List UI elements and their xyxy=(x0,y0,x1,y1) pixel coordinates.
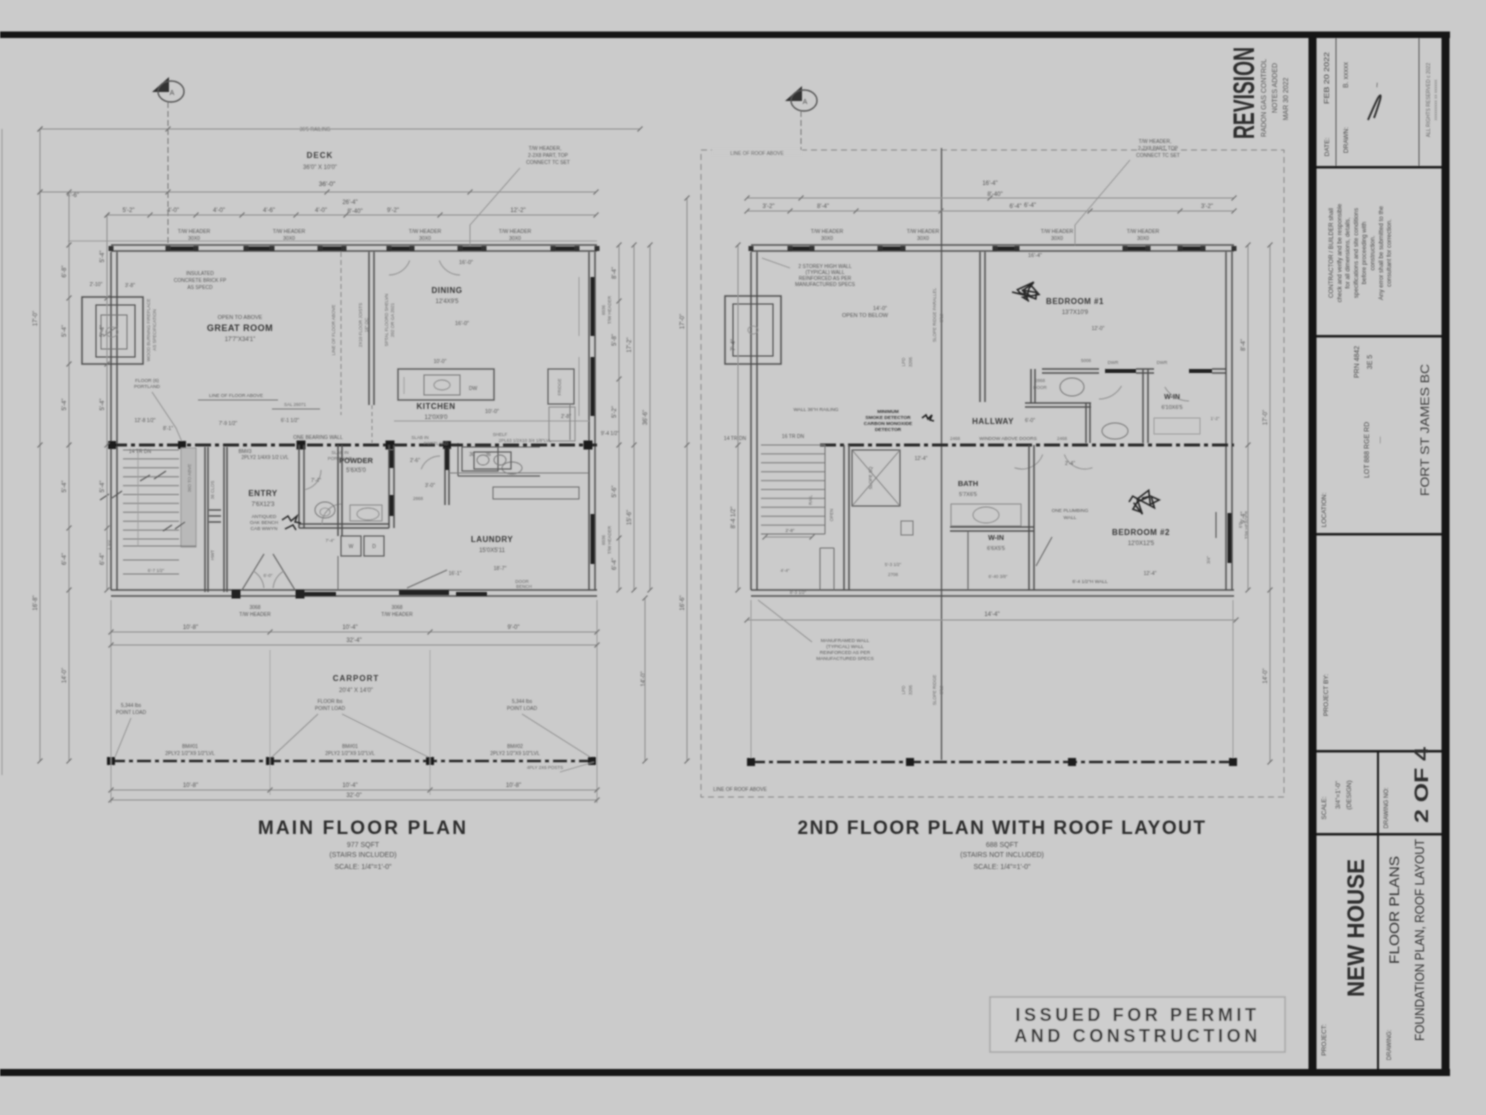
main floor: line of floor above (dashed) xyxy=(340,252,342,415)
svg-text:6'10X6'5: 6'10X6'5 xyxy=(1161,405,1182,411)
svg-text:3'-8": 3'-8" xyxy=(125,283,135,289)
2nd floor: ridge line xyxy=(941,148,943,760)
svg-text:2'-8": 2'-8" xyxy=(561,414,571,420)
main floor: dimension chains below building xyxy=(111,631,597,633)
svg-text:~: ~ xyxy=(1372,82,1382,87)
main floor: laundry counter and washer-dryer pair xyxy=(474,452,511,469)
svg-text:(TYPICAL) WALL: (TYPICAL) WALL xyxy=(826,644,864,650)
svg-text:SMOKE DETECTOR: SMOKE DETECTOR xyxy=(865,415,911,421)
svg-text:BEDROOM #1: BEDROOM #1 xyxy=(1046,297,1104,306)
svg-text:6036: 6036 xyxy=(601,534,606,545)
svg-text:26'-4": 26'-4" xyxy=(342,200,357,206)
svg-text:FEB 20 2022: FEB 20 2022 xyxy=(1324,52,1331,104)
svg-text:OPEN: OPEN xyxy=(829,509,834,522)
svg-text:8'-1": 8'-1" xyxy=(163,426,173,432)
svg-text:6'-7 1/2": 6'-7 1/2" xyxy=(148,568,165,573)
svg-text:2-2X8 PART, TOP: 2-2X8 PART, TOP xyxy=(528,153,569,159)
svg-text:6'-0": 6'-0" xyxy=(1025,418,1035,424)
svg-text:3/4": 3/4" xyxy=(1206,556,1211,564)
svg-text:POWDER: POWDER xyxy=(339,456,373,465)
svg-text:FLOOR lbs: FLOOR lbs xyxy=(317,699,343,705)
svg-text:T/W HEADER: T/W HEADER xyxy=(607,295,612,324)
left page edge line xyxy=(1,129,3,775)
svg-text:16'-0": 16'-0" xyxy=(455,321,469,327)
main floor: dining patio door arc xyxy=(389,261,410,276)
svg-text:7'-4": 7'-4" xyxy=(326,538,335,543)
svg-text:T/W HEADER: T/W HEADER xyxy=(607,525,612,554)
svg-text:T/W HEADER: T/W HEADER xyxy=(381,612,413,618)
svg-text:8/12: 8/12 xyxy=(939,685,944,694)
main floor: carport beam line xyxy=(111,760,597,763)
svg-text:DRAWN:: DRAWN: xyxy=(1343,127,1350,153)
svg-text:14'-4": 14'-4" xyxy=(984,612,999,618)
svg-text:LINE OF ROOF ABOVE: LINE OF ROOF ABOVE xyxy=(730,151,784,157)
svg-text:PORTLAND: PORTLAND xyxy=(424,441,449,446)
svg-text:6036: 6036 xyxy=(601,304,606,315)
svg-text:BM#01: BM#01 xyxy=(342,744,358,750)
svg-text:RADON GAS CONTROL: RADON GAS CONTROL xyxy=(1261,59,1268,137)
svg-text:6'-4": 6'-4" xyxy=(1010,204,1022,210)
2nd floor: wall bath/bedroom2 separator xyxy=(1028,445,1030,590)
svg-text:6'-8": 6'-8" xyxy=(62,266,68,278)
svg-text:HALLWAY: HALLWAY xyxy=(972,417,1014,426)
svg-text:8'-4 1/2": 8'-4 1/2" xyxy=(731,507,737,529)
svg-text:14'-0": 14'-0" xyxy=(641,671,647,686)
2nd floor: roof extension lines xyxy=(750,600,752,762)
main floor: kitchen island xyxy=(398,369,494,400)
svg-text:2868: 2868 xyxy=(1035,378,1046,383)
svg-text:3'-0": 3'-0" xyxy=(425,483,435,489)
svg-text:FORT ST JAMES BC: FORT ST JAMES BC xyxy=(1420,364,1432,496)
svg-text:2PL63 1/2X10 3/4 1/8"LVL: 2PL63 1/2X10 3/4 1/8"LVL xyxy=(499,438,552,443)
svg-text:15'0X5'11: 15'0X5'11 xyxy=(479,548,506,554)
svg-text:LPD: LPD xyxy=(901,357,906,367)
svg-text:BM#02: BM#02 xyxy=(507,744,523,750)
svg-text:8'-3 1/2": 8'-3 1/2" xyxy=(790,590,807,595)
svg-text:SLOPE RIDGE PARALLEL: SLOPE RIDGE PARALLEL xyxy=(932,287,937,342)
svg-text:DOOR: DOOR xyxy=(1033,385,1047,390)
svg-text:16'-4": 16'-4" xyxy=(1028,253,1042,259)
svg-text:1'-2": 1'-2" xyxy=(1211,416,1220,421)
main floor: fridge xyxy=(548,369,574,404)
svg-text:3/4"=1'-0": 3/4"=1'-0" xyxy=(1335,780,1342,809)
svg-text:15'-6": 15'-6" xyxy=(627,510,633,525)
svg-text:AS SPECD: AS SPECD xyxy=(187,285,213,291)
svg-text:2'-8": 2'-8" xyxy=(786,528,795,533)
2nd floor: mid wall xyxy=(820,444,1234,447)
svg-text:INSULATED: INSULATED xyxy=(186,271,214,277)
svg-text:12'-2": 12'-2" xyxy=(510,208,525,214)
svg-text:ANTIQUED: ANTIQUED xyxy=(252,514,277,520)
svg-text:NEW HOUSE: NEW HOUSE xyxy=(1343,859,1370,997)
svg-text:GREAT ROOM: GREAT ROOM xyxy=(207,323,273,333)
svg-text:ONE PLUMBING: ONE PLUMBING xyxy=(1052,508,1089,514)
svg-text:9'-4 1/2": 9'-4 1/2" xyxy=(601,431,620,437)
svg-text:CARBON MONOXIDE: CARBON MONOXIDE xyxy=(864,421,913,427)
svg-text:8'-4": 8'-4" xyxy=(1241,339,1247,351)
svg-text:4'-4": 4'-4" xyxy=(781,568,790,573)
svg-text:2868: 2868 xyxy=(413,496,424,501)
main floor: right wall lower window header xyxy=(591,514,595,564)
svg-text:BEDROOM #2: BEDROOM #2 xyxy=(1112,528,1170,537)
svg-text:CONNECT TC SET: CONNECT TC SET xyxy=(1136,153,1180,159)
sheet top border xyxy=(0,32,1450,39)
sheet right border xyxy=(1442,32,1450,1076)
svg-text:3068: 3068 xyxy=(249,605,260,611)
svg-text:5,344 lbs: 5,344 lbs xyxy=(121,703,142,709)
svg-text:NOTES ADDED: NOTES ADDED xyxy=(1272,63,1279,113)
svg-text:17'-0": 17'-0" xyxy=(1263,410,1269,425)
svg-text:5'7X6'5: 5'7X6'5 xyxy=(959,492,977,498)
svg-text:6'-1 1/2": 6'-1 1/2" xyxy=(281,418,300,424)
svg-text:SHELF: SHELF xyxy=(493,432,508,437)
svg-text:(DESIGN): (DESIGN) xyxy=(1346,780,1353,809)
svg-text:16 TR DN: 16 TR DN xyxy=(782,434,805,440)
svg-text:LOT 888 RGE RD: LOT 888 RGE RD xyxy=(1364,422,1371,478)
svg-text:30X0: 30X0 xyxy=(188,236,200,242)
svg-text:30X0: 30X0 xyxy=(283,236,295,242)
svg-text:WALL: WALL xyxy=(1064,515,1077,521)
svg-text:5'-2": 5'-2" xyxy=(123,208,135,214)
svg-text:2'-4": 2'-4" xyxy=(1065,461,1075,467)
2nd floor: w-in lower xyxy=(950,526,1034,528)
svg-text:5'6X5'0: 5'6X5'0 xyxy=(346,468,366,474)
main floor: washer dryer xyxy=(341,536,361,556)
svg-text:12'-0": 12'-0" xyxy=(1092,326,1105,332)
svg-text:FLOOR PLANS: FLOOR PLANS xyxy=(1386,856,1402,964)
svg-text:PORTLAND: PORTLAND xyxy=(134,384,161,390)
svg-text:2ND FLOOR PLAN WITH ROOF L: 2ND FLOOR PLAN WITH ROOF LAYOUT xyxy=(798,818,1207,839)
svg-text:2 OF 4: 2 OF 4 xyxy=(1412,746,1433,823)
svg-text:14'-0": 14'-0" xyxy=(873,306,887,312)
svg-text:3205: 3205 xyxy=(908,684,913,695)
svg-text:DETECTOR: DETECTOR xyxy=(875,427,902,433)
svg-text:specifications and site condit: specifications and site conditions xyxy=(1353,208,1360,298)
2nd floor: left dimension chains xyxy=(737,245,739,590)
svg-text:7'-9 1/2": 7'-9 1/2" xyxy=(219,421,238,427)
svg-text:T/W HEADER: T/W HEADER xyxy=(178,229,211,235)
svg-text:36'5 RAILING: 36'5 RAILING xyxy=(300,127,331,133)
svg-text:2468: 2468 xyxy=(950,436,961,441)
svg-text:6'-4": 6'-4" xyxy=(62,553,68,565)
svg-text:OAK BENCH: OAK BENCH xyxy=(250,520,279,526)
svg-text:DRAWING NO:: DRAWING NO: xyxy=(1384,787,1390,828)
svg-text:W-IN: W-IN xyxy=(1164,394,1180,401)
svg-text:3'-2": 3'-2" xyxy=(763,204,775,210)
svg-text:SLAB IN: SLAB IN xyxy=(331,450,348,455)
svg-text:AND CONSTRUCTION: AND CONSTRUCTION xyxy=(1014,1026,1261,1046)
svg-text:16'-6": 16'-6" xyxy=(680,595,686,610)
svg-text:A: A xyxy=(803,99,808,106)
svg-text:9'-0": 9'-0" xyxy=(508,625,520,631)
svg-text:AS SPECIFICATION: AS SPECIFICATION xyxy=(152,309,157,350)
svg-text:T/W HEADER: T/W HEADER xyxy=(1127,229,1160,235)
svg-text:A: A xyxy=(170,90,175,97)
svg-text:(STAIRS INCLUDED): (STAIRS INCLUDED) xyxy=(329,852,396,859)
main floor: closet walls near entry xyxy=(204,447,206,592)
svg-text:17'-0": 17'-0" xyxy=(680,314,686,329)
svg-text:3'-2": 3'-2" xyxy=(1201,204,1213,210)
2nd floor: plant scribble bedroom1 xyxy=(1012,282,1039,302)
svg-text:T/W HEADER,: T/W HEADER, xyxy=(529,146,562,152)
2nd floor: carport beam line xyxy=(751,761,1233,764)
svg-text:36'-6": 36'-6" xyxy=(643,410,649,425)
svg-text:T/W HEADER: T/W HEADER xyxy=(409,229,442,235)
svg-text:LINE OF ROOF ABOVE: LINE OF ROOF ABOVE xyxy=(713,787,767,793)
svg-text:SCALE: 1/4"=1'-0": SCALE: 1/4"=1'-0" xyxy=(973,864,1031,871)
main floor: kitchen-laundry wall xyxy=(444,448,446,505)
svg-text:2X10 FLOOR JOISTS: 2X10 FLOOR JOISTS xyxy=(358,303,363,347)
svg-text:MANUFRAMED WALL: MANUFRAMED WALL xyxy=(821,638,870,644)
svg-text:2PLY2 1/2"X9 1/2"LVL: 2PLY2 1/2"X9 1/2"LVL xyxy=(165,751,215,757)
main floor: left dimension chains xyxy=(39,129,41,761)
2nd floor: right dimension chains xyxy=(1247,245,1249,590)
svg-text:SCALE: 1/4"=1'-0": SCALE: 1/4"=1'-0" xyxy=(334,864,392,871)
svg-text:LAUNDRY: LAUNDRY xyxy=(471,535,513,544)
svg-text:17'-2": 17'-2" xyxy=(627,337,633,352)
svg-text:17'-0": 17'-0" xyxy=(33,311,39,326)
svg-text:ENTRY: ENTRY xyxy=(248,489,277,498)
svg-text:12'0X12'5: 12'0X12'5 xyxy=(1128,541,1155,547)
svg-text:4'-6": 4'-6" xyxy=(263,208,275,214)
svg-text:PRN 4842: PRN 4842 xyxy=(1354,346,1361,378)
svg-text:FLOOR (6): FLOOR (6) xyxy=(135,378,159,384)
svg-text:7'-4": 7'-4" xyxy=(731,339,737,351)
svg-text:6'-4 1/2"H WALL: 6'-4 1/2"H WALL xyxy=(1072,579,1108,585)
main floor: entry bench scribble xyxy=(282,516,301,530)
svg-text:10'-4": 10'-4" xyxy=(342,783,357,789)
main floor: mid bearing wall (dash-dot) xyxy=(111,444,597,447)
svg-text:DATE:: DATE: xyxy=(1324,137,1331,156)
svg-text:32'-0": 32'-0" xyxy=(346,793,361,799)
svg-text:T/W HEADER: T/W HEADER xyxy=(239,612,271,618)
2nd floor: fireplace chase xyxy=(725,296,781,364)
main floor: top dimension chains xyxy=(40,128,640,130)
svg-text:30X0: 30X0 xyxy=(1051,236,1063,242)
svg-text:10'-8": 10'-8" xyxy=(183,783,198,789)
svg-text:T/W HEADER: T/W HEADER xyxy=(811,229,844,235)
main floor: headers on bottom wall (doors) xyxy=(296,592,336,596)
main floor: bottom dimension chains xyxy=(111,789,597,791)
svg-text:8'-40": 8'-40" xyxy=(987,192,1002,198)
svg-text:3E 5: 3E 5 xyxy=(1367,355,1374,370)
svg-text:xxxxxxxxx xx xxxxxx: xxxxxxxxx xx xxxxxx xyxy=(1433,79,1438,121)
svg-text:12'4X9'5: 12'4X9'5 xyxy=(436,299,460,305)
main floor: building outer walls xyxy=(111,244,597,246)
svg-text:10'-4": 10'-4" xyxy=(342,625,357,631)
svg-text:16'-1": 16'-1" xyxy=(449,571,462,577)
svg-text:DRAWING:: DRAWING: xyxy=(1387,1029,1393,1060)
svg-text:14 TR DN: 14 TR DN xyxy=(724,436,747,442)
svg-text:SCALE:: SCALE: xyxy=(1321,796,1328,819)
main floor: wall between great room and dining xyxy=(368,252,370,405)
2nd floor: bath door arcs xyxy=(1099,386,1122,399)
svg-text:SLOPE RIDGE: SLOPE RIDGE xyxy=(932,675,937,706)
svg-text:T/W HEADER: T/W HEADER xyxy=(1041,229,1074,235)
svg-text:REVISION: REVISION xyxy=(1228,47,1261,139)
svg-text:CAB WWYN: CAB WWYN xyxy=(251,526,278,532)
svg-text:30X0: 30X0 xyxy=(509,236,521,242)
grid bubble A (plan 2) xyxy=(785,86,802,101)
svg-text:consultant for correction.: consultant for correction. xyxy=(1386,219,1393,287)
svg-text:LOCATION:: LOCATION: xyxy=(1321,493,1328,528)
svg-text:DW: DW xyxy=(469,386,478,392)
issued for permit stamp xyxy=(990,997,1285,1052)
svg-text:WINDOW ABOVE DOORS: WINDOW ABOVE DOORS xyxy=(979,436,1037,442)
svg-text:DOOR: DOOR xyxy=(515,579,529,584)
svg-text:Any error shall be submitted t: Any error shall be submitted to the xyxy=(1378,205,1385,300)
svg-text:2'-10": 2'-10" xyxy=(90,282,103,288)
main floor: powder room walls xyxy=(298,445,300,528)
svg-text:9'-2": 9'-2" xyxy=(387,208,399,214)
svg-text:2PLY2 1/2"X9 1/2"LVL: 2PLY2 1/2"X9 1/2"LVL xyxy=(490,751,540,757)
2nd floor: upper bath fixtures xyxy=(1060,378,1084,396)
svg-text:5'-2": 5'-2" xyxy=(612,406,618,418)
svg-text:WALL 36"H RAILING: WALL 36"H RAILING xyxy=(793,407,838,413)
2nd floor: door arcs off hallway xyxy=(1015,455,1043,470)
svg-text:—: — xyxy=(1377,437,1384,444)
svg-text:30X0: 30X0 xyxy=(419,236,431,242)
svg-text:18'-7": 18'-7" xyxy=(494,566,507,572)
svg-text:14'-0": 14'-0" xyxy=(62,668,68,683)
svg-text:36 CLOS: 36 CLOS xyxy=(210,481,215,500)
svg-text:CONTRACTOR / BUILDER shall: CONTRACTOR / BUILDER shall xyxy=(1328,208,1335,298)
svg-text:MAIN FLOOR PLAN: MAIN FLOOR PLAN xyxy=(258,818,468,839)
svg-text:36'0" X 10'0": 36'0" X 10'0" xyxy=(303,165,337,171)
svg-text:16'-8": 16'-8" xyxy=(33,595,39,610)
svg-text:16'-0": 16'-0" xyxy=(459,260,473,266)
main floor: fireplace xyxy=(82,297,143,364)
svg-text:W: W xyxy=(349,544,354,550)
svg-text:5'-4": 5'-4" xyxy=(62,399,68,411)
svg-text:32'-4": 32'-4" xyxy=(346,638,361,644)
svg-text:6'-4": 6'-4" xyxy=(1024,203,1036,209)
svg-text:3205: 3205 xyxy=(908,356,913,367)
svg-text:5'-4": 5'-4" xyxy=(100,399,106,411)
svg-text:BATH: BATH xyxy=(958,479,978,488)
main floor: headers on right wall (windows) xyxy=(591,277,595,336)
svg-text:6'6X5'5: 6'6X5'5 xyxy=(987,546,1005,552)
main floor: kitchen counters and range xyxy=(457,443,459,476)
svg-text:(STAIRS NOT INCLUDED): (STAIRS NOT INCLUDED) xyxy=(960,852,1044,859)
title block: date/drawn cell xyxy=(1335,38,1337,166)
svg-text:LPD: LPD xyxy=(901,685,906,695)
svg-text:20'4" X 14'0": 20'4" X 14'0" xyxy=(339,688,373,694)
svg-text:POINT LOAD: POINT LOAD xyxy=(116,710,147,716)
svg-text:5'-4": 5'-4" xyxy=(100,481,106,493)
svg-text:REINFORCED AS PER: REINFORCED AS PER xyxy=(820,650,871,656)
main floor: back door xyxy=(399,590,449,595)
svg-text:PROJECT:: PROJECT: xyxy=(1321,1024,1328,1056)
svg-text:KITCHEN: KITCHEN xyxy=(416,402,455,411)
svg-text:construction.: construction. xyxy=(1370,235,1377,270)
svg-text:688 SQFT: 688 SQFT xyxy=(986,842,1019,849)
svg-text:4'-0": 4'-0" xyxy=(315,208,327,214)
svg-text:BENCH: BENCH xyxy=(516,584,532,589)
svg-text:5'-4": 5'-4" xyxy=(62,325,68,337)
svg-text:2'-6": 2'-6" xyxy=(410,458,420,464)
svg-text:6'-0": 6'-0" xyxy=(264,573,273,578)
main floor: stairs xyxy=(123,449,179,451)
svg-text:16" OC: 16" OC xyxy=(364,317,369,332)
svg-text:6'-4": 6'-4" xyxy=(612,558,618,570)
svg-text:SPTAL FLOORD SHELVN: SPTAL FLOORD SHELVN xyxy=(384,294,389,347)
2nd floor: w-in closet upper right xyxy=(1154,418,1200,434)
svg-text:5'-4": 5'-4" xyxy=(62,481,68,493)
svg-text:7'6X12'3: 7'6X12'3 xyxy=(252,502,276,508)
svg-text:10'-8": 10'-8" xyxy=(506,783,521,789)
svg-text:4PLY 2X6 POSTS: 4PLY 2X6 POSTS xyxy=(527,765,563,770)
svg-text:DWR: DWR xyxy=(1108,360,1119,365)
svg-text:2468: 2468 xyxy=(1057,436,1068,441)
title block: scale / drawing no cell xyxy=(1377,750,1379,833)
svg-text:6'-40 3/8": 6'-40 3/8" xyxy=(989,574,1008,579)
svg-text:8'-4": 8'-4" xyxy=(612,267,618,279)
2nd floor: bedroom1 wall (vertical) xyxy=(979,252,981,402)
svg-text:HWT: HWT xyxy=(210,550,215,560)
svg-text:8'-4": 8'-4" xyxy=(817,204,829,210)
svg-text:17'7"X34'1": 17'7"X34'1" xyxy=(225,337,256,343)
svg-text:2PLY2 1/2"X9 1/2"LVL: 2PLY2 1/2"X9 1/2"LVL xyxy=(325,751,375,757)
2nd floor: top wall headers xyxy=(790,247,812,251)
svg-text:T/W HEADER: T/W HEADER xyxy=(907,229,940,235)
svg-text:check and verify and be respon: check and verify and be responsible xyxy=(1336,203,1343,302)
svg-text:2-2X8 PART, TOP: 2-2X8 PART, TOP xyxy=(1138,146,1179,152)
svg-text:36'-0": 36'-0" xyxy=(319,181,336,188)
2nd floor: building outer walls xyxy=(751,244,1234,246)
svg-text:MAR 30 2022: MAR 30 2022 xyxy=(1283,77,1290,120)
svg-text:4'-0": 4'-0" xyxy=(167,208,179,214)
svg-text:before proceeding with: before proceeding with xyxy=(1361,221,1368,284)
svg-text:13'7X10'9: 13'7X10'9 xyxy=(1062,310,1089,316)
svg-text:ALL RIGHTS RESERVED c 2022: ALL RIGHTS RESERVED c 2022 xyxy=(1426,63,1432,137)
svg-text:8'-40": 8'-40" xyxy=(347,209,362,215)
svg-text:FRIDGE: FRIDGE xyxy=(557,378,562,395)
svg-text:10'-8": 10'-8" xyxy=(183,625,198,631)
svg-text:PROJECT BY:: PROJECT BY: xyxy=(1323,674,1330,716)
grid bubble A (plan 1) xyxy=(152,77,169,92)
svg-text:POINT LOAD: POINT LOAD xyxy=(507,706,538,712)
2nd floor: wall stairs/bath separator xyxy=(843,445,845,590)
svg-text:12'-8 1/2": 12'-8 1/2" xyxy=(134,418,155,424)
svg-text:5'-4": 5'-4" xyxy=(100,325,106,337)
svg-text:5'-3 1/2": 5'-3 1/2" xyxy=(885,562,902,567)
svg-text:B. xxxxx: B. xxxxx xyxy=(1343,61,1350,88)
2nd floor: line of roof above (dashed rect) xyxy=(701,150,1284,797)
svg-text:9'-4": 9'-4" xyxy=(1241,512,1247,524)
sheet bottom border xyxy=(0,1069,1450,1076)
svg-text:CONCRETE BRICK FP: CONCRETE BRICK FP xyxy=(174,278,227,284)
svg-text:14'-0": 14'-0" xyxy=(1263,668,1269,683)
title block: project / drawing cell xyxy=(1377,833,1379,1069)
svg-text:10'-0": 10'-0" xyxy=(434,359,447,365)
svg-text:5'-6": 5'-6" xyxy=(612,486,618,498)
svg-text:6'-4": 6'-4" xyxy=(100,553,106,565)
svg-text:5'-8": 5'-8" xyxy=(612,334,618,346)
svg-text:DWR: DWR xyxy=(1157,360,1168,365)
main floor: carport extension lines xyxy=(110,600,112,803)
svg-text:CONNECT TC SET: CONNECT TC SET xyxy=(526,160,570,166)
svg-text:OPEN TO ABOVE: OPEN TO ABOVE xyxy=(218,315,263,321)
svg-text:ISSUED FOR PERMIT: ISSUED FOR PERMIT xyxy=(1015,1005,1259,1025)
svg-text:LINE OF FLOOR ABOVE: LINE OF FLOOR ABOVE xyxy=(209,393,263,399)
svg-text:T/W HEADER,: T/W HEADER, xyxy=(1139,139,1172,145)
svg-text:30X0: 30X0 xyxy=(1137,236,1149,242)
svg-text:SLAB IN: SLAB IN xyxy=(411,435,428,440)
svg-text:DINING: DINING xyxy=(432,286,463,295)
svg-text:4'-0": 4'-0" xyxy=(213,208,225,214)
main floor: entry double door xyxy=(242,554,264,590)
